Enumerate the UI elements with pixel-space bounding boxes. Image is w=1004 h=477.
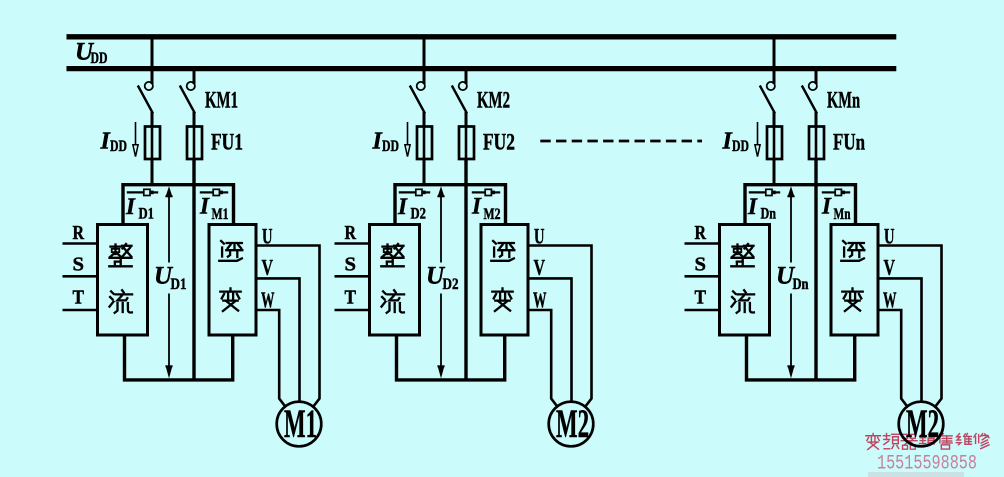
label inverter 逆变 unit 1 bbox=[219, 241, 242, 311]
DC bus positive rail U_DD bbox=[67, 34, 897, 39]
output line V unit n bbox=[878, 278, 922, 402]
DC bus negative rail bbox=[67, 66, 897, 71]
input line S unit n bbox=[685, 275, 720, 278]
current arrow I_M2 bbox=[472, 189, 500, 195]
motor M2 unit 2 bbox=[549, 402, 594, 447]
DC link header bus unit n bbox=[745, 185, 856, 225]
label KM2 bbox=[477, 88, 510, 114]
svg-text:U: U bbox=[262, 224, 273, 249]
label I_D2 bbox=[397, 194, 426, 223]
label U unit 2 bbox=[534, 224, 545, 249]
label I_D1 bbox=[125, 194, 154, 223]
label R unit 1 bbox=[73, 222, 85, 244]
svg-text:D1: D1 bbox=[139, 206, 155, 223]
label R unit n bbox=[695, 222, 707, 244]
label rectifier 整流 unit 2 bbox=[381, 244, 404, 313]
svg-text:M2: M2 bbox=[556, 401, 589, 446]
output line U unit 2 bbox=[528, 246, 592, 409]
svg-text:U: U bbox=[534, 224, 545, 249]
fuse FUn element a bbox=[767, 126, 782, 159]
inverter block unit n bbox=[831, 225, 878, 336]
label V unit 1 bbox=[262, 254, 274, 279]
label KM1 bbox=[205, 88, 238, 114]
svg-text:KMn: KMn bbox=[827, 88, 860, 114]
svg-text:FU2: FU2 bbox=[483, 130, 515, 156]
label I_Mn bbox=[821, 194, 851, 224]
wire: bus drop to KM1 pole b bbox=[193, 68, 196, 84]
label inverter 逆变 unit n bbox=[841, 241, 864, 311]
svg-text:M1: M1 bbox=[212, 206, 229, 223]
watermark phone number 15515598858 bbox=[877, 453, 977, 476]
svg-text:KM1: KM1 bbox=[205, 88, 238, 114]
wire: FU1-a to DC header bbox=[151, 158, 154, 186]
label U_DD bbox=[75, 39, 108, 67]
input line R unit 1 bbox=[63, 242, 98, 245]
svg-text:Mn: Mn bbox=[834, 206, 851, 223]
label W unit n bbox=[883, 287, 897, 312]
contactor KM2 pole b bbox=[452, 82, 467, 127]
svg-text:D2: D2 bbox=[411, 206, 427, 223]
svg-text:T: T bbox=[73, 287, 85, 309]
svg-text:D2: D2 bbox=[443, 276, 459, 293]
svg-text:I: I bbox=[125, 194, 136, 219]
inverter block unit 2 bbox=[481, 225, 528, 336]
svg-text:V: V bbox=[262, 254, 274, 279]
motor M2 unit n bbox=[899, 402, 944, 447]
input line R unit 2 bbox=[335, 242, 370, 245]
current arrow I_D2 bbox=[399, 189, 430, 195]
wire: bus drop to KMn pole a bbox=[773, 36, 776, 84]
DC link bottom bus unit 2 bbox=[397, 335, 505, 380]
fuse FU1 element a bbox=[145, 126, 160, 159]
label V unit 2 bbox=[534, 254, 546, 279]
label KMn bbox=[827, 88, 860, 114]
output line W unit 2 bbox=[528, 310, 559, 409]
contactor KMn pole a bbox=[760, 82, 775, 127]
svg-text:W: W bbox=[883, 287, 897, 312]
label W unit 2 bbox=[533, 287, 547, 312]
label U_D2 bbox=[426, 263, 459, 294]
rectifier block unit n bbox=[720, 225, 770, 336]
voltage arrow U_D1 (double headed) bbox=[165, 186, 172, 378]
output line V unit 1 bbox=[256, 278, 300, 402]
voltage arrow U_Dn (double headed) bbox=[787, 186, 794, 378]
svg-text:W: W bbox=[261, 287, 275, 312]
label M2 unit 2 bbox=[556, 401, 589, 446]
label S unit n bbox=[695, 253, 707, 275]
label rectifier 整流 unit 1 bbox=[109, 244, 132, 313]
svg-text:V: V bbox=[884, 254, 896, 279]
svg-text:Dn: Dn bbox=[761, 206, 777, 223]
svg-text:I: I bbox=[747, 194, 758, 219]
output line W unit n bbox=[878, 310, 909, 409]
svg-text:M2: M2 bbox=[484, 206, 501, 223]
motor M1 unit 1 bbox=[277, 402, 322, 447]
input line S unit 2 bbox=[335, 275, 370, 278]
svg-text:DD: DD bbox=[382, 138, 399, 155]
input line T unit 1 bbox=[63, 309, 98, 312]
svg-text:S: S bbox=[695, 253, 707, 275]
wire: bus drop to KM2 pole b bbox=[465, 68, 468, 84]
fuse FU1 element b bbox=[187, 126, 202, 159]
fuse FU2 element b bbox=[459, 126, 474, 159]
label U_D1 bbox=[154, 263, 187, 294]
svg-text:DD: DD bbox=[732, 138, 749, 155]
svg-text:I: I bbox=[471, 194, 482, 219]
rectifier block unit 1 bbox=[98, 225, 148, 336]
contactor KMn pole b bbox=[802, 82, 817, 127]
wire: DC link negative rail unit 1 bbox=[192, 158, 195, 380]
wire: bus drop to KMn pole b bbox=[815, 68, 818, 84]
wire: FUn-a to DC header bbox=[773, 158, 776, 186]
input line T unit n bbox=[685, 309, 720, 312]
current arrow I_Mn bbox=[822, 189, 850, 195]
wire: DC link negative rail unit 2 bbox=[464, 158, 467, 380]
label V unit n bbox=[884, 254, 896, 279]
svg-text:Dn: Dn bbox=[793, 276, 809, 293]
wire: DC link negative rail unit n bbox=[814, 158, 817, 380]
label M1 unit 1 bbox=[284, 401, 317, 446]
watermark text 变频器销售维修 bbox=[866, 433, 989, 449]
current arrow I_DD unit n bbox=[755, 122, 760, 157]
label S unit 1 bbox=[73, 253, 85, 275]
label I_M1 bbox=[199, 194, 229, 224]
label I_DD unit 2 bbox=[372, 129, 400, 156]
dashed continuation line bbox=[540, 140, 702, 143]
label FUn bbox=[833, 130, 865, 156]
current arrow I_D1 bbox=[127, 189, 158, 195]
output line V unit 2 bbox=[528, 278, 572, 402]
output line U unit n bbox=[878, 246, 942, 409]
svg-text:T: T bbox=[695, 287, 707, 309]
svg-text:S: S bbox=[345, 253, 357, 275]
current arrow I_DD unit 1 bbox=[133, 122, 138, 157]
svg-text:I: I bbox=[199, 194, 210, 219]
fuse FU2 element a bbox=[417, 126, 432, 159]
contactor KM1 pole b bbox=[180, 82, 195, 127]
current arrow I_Dn bbox=[749, 189, 780, 195]
label R unit 2 bbox=[345, 222, 357, 244]
label I_DD unit 1 bbox=[100, 129, 128, 156]
contactor KM2 pole a bbox=[410, 82, 425, 127]
fuse FUn element b bbox=[809, 126, 824, 159]
label I_Dn bbox=[747, 194, 776, 223]
inverter block unit 1 bbox=[209, 225, 256, 336]
svg-text:R: R bbox=[345, 222, 357, 244]
current arrow I_DD unit 2 bbox=[405, 122, 410, 157]
output line W unit 1 bbox=[256, 310, 287, 409]
input line T unit 2 bbox=[335, 309, 370, 312]
svg-text:D1: D1 bbox=[171, 276, 187, 293]
voltage arrow U_D2 (double headed) bbox=[437, 186, 444, 378]
label I_DD unit n bbox=[722, 129, 750, 156]
input line S unit 1 bbox=[63, 275, 98, 278]
current arrow I_M1 bbox=[200, 189, 228, 195]
DC link bottom bus unit 1 bbox=[125, 335, 233, 380]
input line R unit n bbox=[685, 242, 720, 245]
svg-text:V: V bbox=[534, 254, 546, 279]
label U unit 1 bbox=[262, 224, 273, 249]
svg-text:W: W bbox=[533, 287, 547, 312]
svg-text:KM2: KM2 bbox=[477, 88, 510, 114]
svg-text:FU1: FU1 bbox=[211, 130, 243, 156]
label T unit n bbox=[695, 287, 707, 309]
label U unit n bbox=[884, 224, 895, 249]
label I_M2 bbox=[471, 194, 501, 224]
DC link bottom bus unit n bbox=[747, 335, 855, 380]
label T unit 1 bbox=[73, 287, 85, 309]
label M2 unit n bbox=[906, 401, 939, 446]
svg-text:I: I bbox=[821, 194, 832, 219]
svg-text:R: R bbox=[695, 222, 707, 244]
label FU2 bbox=[483, 130, 515, 156]
svg-text:R: R bbox=[73, 222, 85, 244]
watermark partial third line (cut off) bbox=[868, 472, 964, 477]
label T unit 2 bbox=[345, 287, 357, 309]
rectifier block unit 2 bbox=[370, 225, 420, 336]
label inverter 逆变 unit 2 bbox=[491, 241, 514, 311]
label S unit 2 bbox=[345, 253, 357, 275]
svg-text:FUn: FUn bbox=[833, 130, 865, 156]
svg-text:T: T bbox=[345, 287, 357, 309]
wire: FU2-a to DC header bbox=[423, 158, 426, 186]
DC link header bus unit 2 bbox=[395, 185, 506, 225]
contactor KM1 pole a bbox=[138, 82, 153, 127]
svg-text:DD: DD bbox=[110, 138, 127, 155]
wire: bus drop to KM1 pole a bbox=[151, 36, 154, 84]
label W unit 1 bbox=[261, 287, 275, 312]
label rectifier 整流 unit n bbox=[731, 244, 754, 313]
svg-text:DD: DD bbox=[91, 50, 108, 67]
svg-text:M1: M1 bbox=[284, 401, 317, 446]
DC link header bus unit 1 bbox=[123, 185, 234, 225]
svg-text:S: S bbox=[73, 253, 85, 275]
label FU1 bbox=[211, 130, 243, 156]
svg-text:U: U bbox=[884, 224, 895, 249]
wire: bus drop to KM2 pole a bbox=[423, 36, 426, 84]
svg-text:I: I bbox=[397, 194, 408, 219]
output line U unit 1 bbox=[256, 246, 320, 409]
label U_Dn bbox=[776, 263, 809, 294]
